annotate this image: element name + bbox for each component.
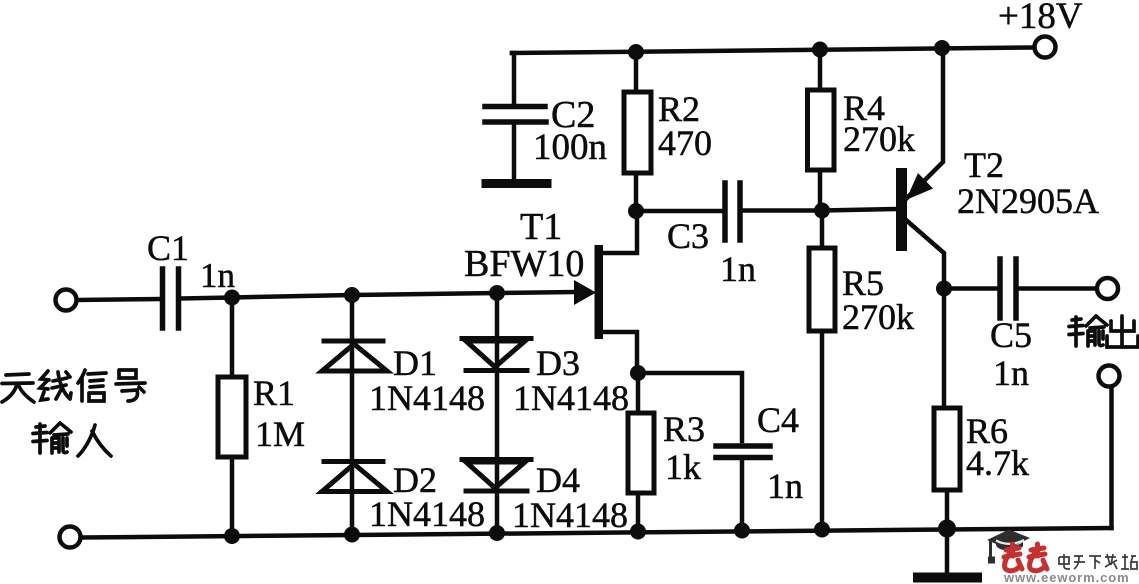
terminal output bottom <box>1099 366 1120 387</box>
label R6 <box>966 411 1008 451</box>
node source-R3-C4 <box>630 365 646 381</box>
label C4 value 1n <box>767 466 803 506</box>
wire D1-D2 column <box>350 295 355 535</box>
wire T2 emitter <box>906 48 943 200</box>
node C4 bottom <box>734 523 750 539</box>
svg-text:1N4148: 1N4148 <box>513 378 629 418</box>
wire node to C3 <box>636 209 722 214</box>
wire C2 to ground <box>512 124 517 179</box>
wire R2 top lead <box>634 52 639 92</box>
wire R2 bottom lead <box>634 173 639 211</box>
node collector-C5-R6 <box>936 281 952 297</box>
label D4 <box>536 460 580 500</box>
capacitor C4 <box>716 446 770 458</box>
diode D4 <box>462 460 531 492</box>
svg-text:1M: 1M <box>255 414 305 454</box>
node rail-R2 <box>628 44 644 60</box>
label C2 <box>551 94 595 136</box>
svg-text:2N2905A: 2N2905A <box>957 181 1099 221</box>
svg-text:D4: D4 <box>536 460 580 500</box>
label D3 <box>536 343 580 383</box>
svg-text:470: 470 <box>658 123 712 163</box>
label T2 <box>964 145 1004 185</box>
label D1 <box>393 343 437 383</box>
node R6-ground <box>938 520 956 538</box>
wire bottom ground rail <box>81 528 1112 538</box>
svg-text:1n: 1n <box>720 249 756 289</box>
wire C5 to output terminal <box>1019 286 1096 291</box>
label R1 <box>253 373 295 413</box>
label D3 value 1N4148 <box>513 378 629 418</box>
svg-text:C4: C4 <box>757 400 799 440</box>
node D2 bottom <box>344 527 360 543</box>
wire R5 top lead <box>820 211 825 249</box>
wire R3 top lead <box>636 373 641 413</box>
label R4 value 270k <box>843 119 915 159</box>
T1 gate arrow <box>574 280 596 305</box>
label C1 value 1n <box>200 256 235 295</box>
svg-text:T2: T2 <box>964 145 1004 185</box>
annotation 天线信号 (antenna signal) <box>2 370 145 402</box>
label T1 type BFW10 <box>464 243 584 285</box>
label C4 <box>757 400 799 440</box>
terminal input top <box>56 290 77 311</box>
svg-text:4.7k: 4.7k <box>966 443 1029 483</box>
node D3 top <box>489 285 505 301</box>
svg-text:1n: 1n <box>993 353 1029 393</box>
node R5 bottom <box>814 522 830 538</box>
resistor R3 <box>628 413 654 493</box>
capacitor C1 <box>163 269 179 328</box>
label C5 value 1n <box>993 353 1029 393</box>
resistor R1 <box>218 377 246 457</box>
svg-text:BFW10: BFW10 <box>464 243 584 285</box>
svg-text:C5: C5 <box>990 315 1032 355</box>
svg-text:1N4148: 1N4148 <box>512 495 628 535</box>
svg-text:www.eeworm.com: www.eeworm.com <box>1003 570 1130 584</box>
svg-text:1k: 1k <box>665 447 701 487</box>
wire C4 bottom lead <box>740 460 745 531</box>
label R2 <box>658 89 700 129</box>
annotation 输出 (output) <box>1069 316 1138 347</box>
node rail-R4 <box>812 42 828 58</box>
svg-text:C3: C3 <box>667 216 709 256</box>
ground below C2 <box>486 179 547 188</box>
ground symbol bottom right <box>918 573 977 583</box>
label R4 <box>843 88 885 128</box>
wire collector node to C5 <box>944 286 997 291</box>
wire input to C1 <box>77 299 160 300</box>
svg-text:1N4148: 1N4148 <box>369 378 485 418</box>
svg-text:D3: D3 <box>536 343 580 383</box>
wire R4 bottom lead <box>818 170 823 211</box>
resistor R2 <box>624 92 651 173</box>
node drain-C3 <box>628 203 644 219</box>
wire R3 bottom lead <box>636 493 641 532</box>
diode D2 <box>322 462 387 492</box>
node D1 top <box>344 287 360 303</box>
svg-text:1n: 1n <box>200 256 235 295</box>
svg-text:T1: T1 <box>520 206 562 248</box>
wire C3 to base node <box>743 209 897 211</box>
node C1-R1 <box>224 290 240 306</box>
label C1 <box>147 228 189 268</box>
label T2 type 2N2905A <box>957 181 1099 221</box>
svg-text:100n: 100n <box>533 127 607 168</box>
svg-text:D1: D1 <box>393 343 437 383</box>
annotation 输入 (input) <box>33 423 111 456</box>
watermark graduation cap icon <box>987 530 1030 564</box>
resistor R4 <box>808 90 835 170</box>
wire R4 top lead <box>818 50 823 91</box>
label D4 value 1N4148 <box>512 495 628 535</box>
svg-text:270k: 270k <box>843 119 915 159</box>
resistor R5 <box>809 248 835 331</box>
label T1 <box>520 206 562 248</box>
svg-text:1n: 1n <box>767 466 803 506</box>
resistor R6 <box>934 408 960 490</box>
wire C2 branch from rail <box>512 53 514 104</box>
node C3-R4-R5 <box>814 203 830 219</box>
svg-text:C1: C1 <box>147 228 189 268</box>
wire T2 collector <box>906 220 944 288</box>
label +18V <box>998 0 1083 37</box>
label D1 value 1N4148 <box>369 378 485 418</box>
svg-text:270k: 270k <box>842 297 914 337</box>
wire R5 bottom lead <box>820 331 825 530</box>
label R5 value 270k <box>842 297 914 337</box>
transistor T2 base bar <box>896 168 907 251</box>
label D2 <box>393 460 437 500</box>
wire D3-D4 column <box>495 293 500 533</box>
wire T1 source lead <box>601 332 637 373</box>
wire top supply rail <box>512 48 1032 54</box>
wire T1 drain lead <box>601 211 637 253</box>
label R6 value 4.7k <box>966 443 1029 483</box>
label R3 value 1k <box>665 447 701 487</box>
wire source node to C4 <box>638 373 742 441</box>
transistor T1 channel bar <box>595 245 604 339</box>
wire ground stub <box>945 529 950 575</box>
node R1-bottom <box>224 528 240 544</box>
wire R6 bottom lead <box>945 490 950 529</box>
label R1 value 1M <box>255 414 305 454</box>
wire R6 top lead <box>944 289 946 409</box>
watermark 虫虫 logo <box>1004 544 1047 571</box>
node R3 bottom <box>630 524 646 540</box>
capacitor C2 <box>485 107 546 123</box>
diode D1 <box>322 341 387 371</box>
terminal +18V <box>1035 37 1056 58</box>
wire bottom rail to output terminal <box>1109 388 1114 528</box>
label C5 <box>990 315 1032 355</box>
terminal input bottom <box>60 527 81 548</box>
T2 emitter arrow <box>906 173 933 200</box>
label C3 <box>667 216 709 256</box>
diode D3 <box>462 339 531 371</box>
label C3 value 1n <box>720 249 756 289</box>
label R2 value 470 <box>658 123 712 163</box>
svg-text:R1: R1 <box>253 373 295 413</box>
svg-text:+18V: +18V <box>998 0 1083 37</box>
watermark 电子下载站 text <box>1059 554 1137 569</box>
terminal output top <box>1097 278 1118 299</box>
wire R1 bottom lead <box>230 457 235 536</box>
label D2 value 1N4148 <box>369 494 485 534</box>
capacitor C3 <box>725 183 740 240</box>
svg-text:R3: R3 <box>663 409 705 449</box>
watermark www.eeworm.com text <box>1003 570 1130 584</box>
label R5 <box>842 263 884 303</box>
wire R1 top lead <box>230 298 235 378</box>
svg-text:1N4148: 1N4148 <box>369 494 485 534</box>
node D4 bottom <box>489 525 505 541</box>
capacitor C5 <box>1000 259 1016 318</box>
label R3 <box>663 409 705 449</box>
label C2 value 100n <box>533 127 607 168</box>
node rail-T2 emitter <box>934 40 950 56</box>
wire C1 to gate line <box>181 292 574 299</box>
